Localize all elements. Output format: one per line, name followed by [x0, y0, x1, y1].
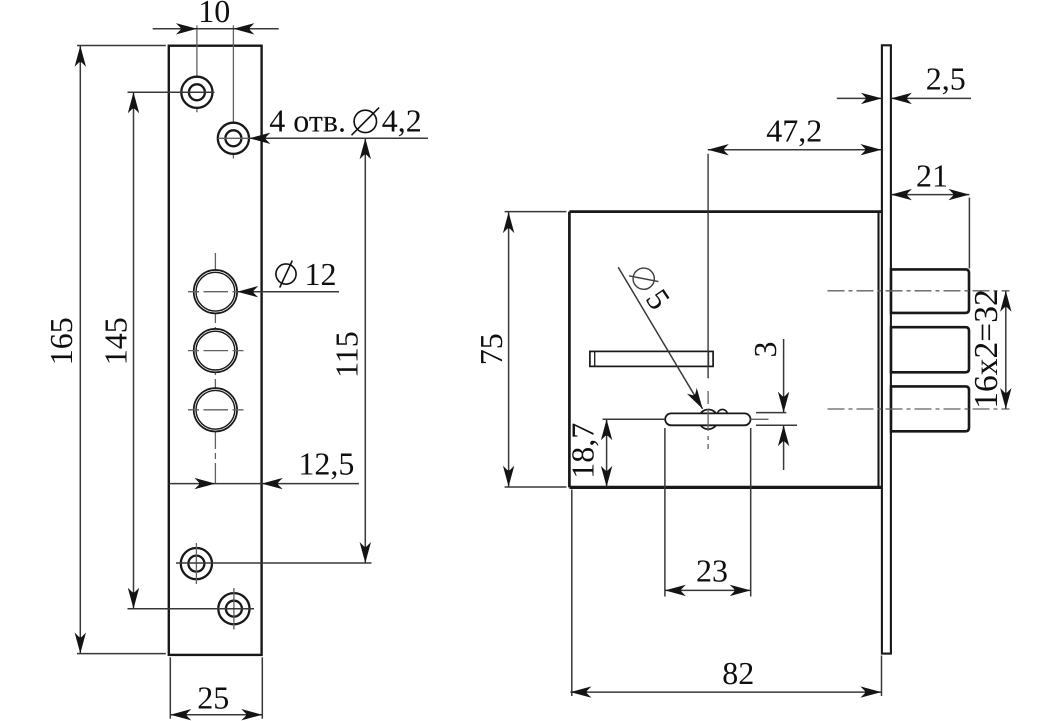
keyhole horizontal centerline right: [751, 418, 769, 420]
slot (upper rectangular hole): [590, 351, 713, 366]
dimension 25 (bottom): [170, 657, 262, 720]
extension/centerline through top hole column 2: [232, 25, 234, 158]
dimension 2,5: [837, 61, 971, 105]
svg-text:145: 145: [97, 317, 133, 365]
dimension 23: [665, 428, 751, 597]
dimension 21: [891, 158, 970, 269]
screw hole H4 bottom: [218, 588, 249, 630]
faceplate edge view: [882, 45, 891, 653]
screw hole H1 top-left: [176, 77, 215, 108]
svg-text:115: 115: [328, 331, 364, 378]
dimension 16x2=32: [968, 289, 1012, 409]
dimension 18,7: [564, 419, 612, 487]
bolt B3 centerline: [828, 408, 1010, 410]
svg-text:16х2=32: 16х2=32: [968, 289, 1005, 408]
bolt B2: [891, 327, 969, 372]
bolt B1 centerline: [828, 290, 1010, 292]
svg-text:4,2: 4,2: [382, 103, 422, 139]
bolt B3: [891, 386, 969, 431]
keyhole: [665, 409, 750, 429]
svg-text:3: 3: [747, 342, 783, 358]
faceplate front view outline: [169, 46, 262, 655]
big hole C1: [188, 270, 244, 313]
lock body outline: [569, 212, 882, 488]
dimension 10 (top): [153, 0, 279, 35]
dimension 75: [473, 212, 566, 487]
svg-text:47,2: 47,2: [766, 113, 822, 149]
svg-text:10: 10: [198, 0, 230, 29]
svg-text:165: 165: [43, 317, 79, 365]
dimension 82: [570, 490, 881, 698]
svg-text:21: 21: [916, 158, 948, 194]
svg-text:4 отв.: 4 отв.: [269, 103, 346, 139]
bolt B1: [891, 269, 969, 313]
vertical centerline through big holes: [214, 253, 216, 484]
dimension 145: [97, 92, 254, 608]
screw hole H2 upper: [218, 123, 255, 154]
svg-text:18,7: 18,7: [564, 423, 600, 479]
big hole C3: [188, 388, 244, 431]
vertical extension line from 47,2 to keyhole: [707, 154, 709, 379]
svg-text:12,5: 12,5: [298, 445, 354, 481]
leader dia 5: [618, 259, 707, 411]
svg-text:82: 82: [722, 655, 754, 691]
svg-text:25: 25: [197, 680, 229, 716]
screw hole H3 lower-left: [181, 543, 212, 584]
leader: 4 holes dia 4,2: [249, 103, 428, 144]
svg-text:75: 75: [473, 333, 509, 365]
svg-text:12: 12: [305, 256, 337, 292]
dimension 115 (right of plate): [176, 138, 372, 563]
svg-text:23: 23: [696, 552, 728, 588]
leader: dia 12: [237, 256, 339, 298]
dimension 165 (left): [43, 46, 166, 654]
dimension 47,2: [708, 113, 882, 156]
dimension 12,5: [169, 445, 359, 489]
leader for 18,7 (keyhole center): [603, 418, 666, 420]
keyhole vertical centerline: [707, 391, 709, 449]
big hole C2: [188, 329, 244, 372]
svg-text:2,5: 2,5: [926, 61, 966, 97]
dimension 3 (slot height): [747, 339, 797, 470]
extension/centerline through top hole column 1: [196, 25, 198, 112]
